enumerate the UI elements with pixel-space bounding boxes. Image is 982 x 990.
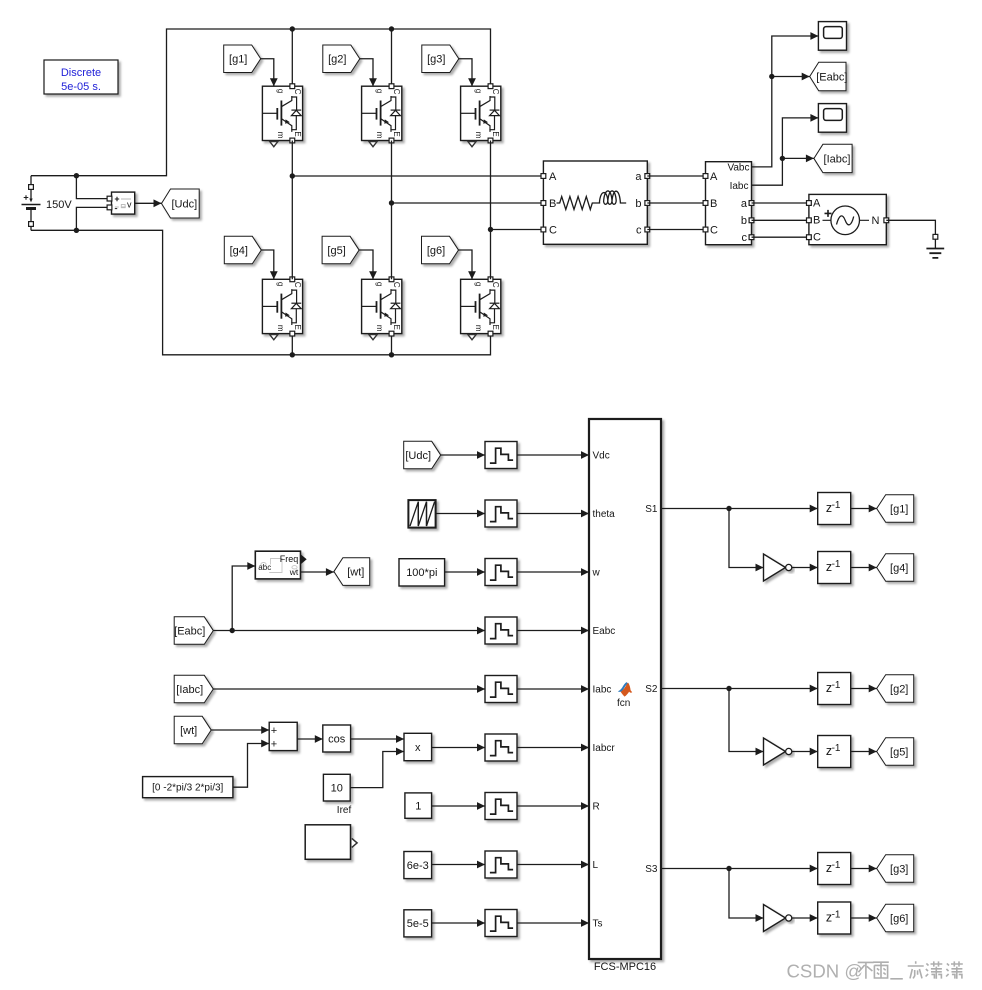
wire: DC- to voltmeter - input <box>76 207 109 230</box>
wire: g5 gate signal <box>359 250 377 279</box>
svg-text:g: g <box>276 89 285 93</box>
svg-text:5e-05 s.: 5e-05 s. <box>61 81 101 93</box>
IGBT/Diode block 3 (upper leg C) <box>461 84 501 147</box>
svg-text:C: C <box>491 282 500 288</box>
from tag [Iabc] (controller input) <box>174 675 213 703</box>
wire: rate transition 2 to FCS-MPC16 theta input <box>517 510 589 518</box>
wire: meas c to source C <box>752 236 809 238</box>
rate transition block 9 (Ts) <box>485 910 517 937</box>
svg-text:B: B <box>813 215 820 227</box>
svg-text:C: C <box>293 89 302 95</box>
scope block 1 (Vabc) <box>818 22 846 51</box>
wire: delay to Goto [g5] <box>851 748 877 756</box>
wire: g1 branch to NOT gate <box>729 509 764 572</box>
unit delay Z-1 (g3) <box>818 853 851 885</box>
svg-text:[g5]: [g5] <box>327 245 345 257</box>
wire: product to rate transition 6 <box>432 744 485 752</box>
svg-text:Iabc: Iabc <box>593 685 612 696</box>
port: RLC C <box>541 227 546 232</box>
wire: meas b to source B <box>752 219 809 221</box>
port: RLC b <box>645 201 650 206</box>
svg-text:Eabc: Eabc <box>593 626 616 637</box>
from tag [Eabc] (controller input) <box>174 617 213 645</box>
svg-text:[g6]: [g6] <box>890 913 908 925</box>
svg-text:C: C <box>293 282 302 288</box>
wire: sawtooth to rate transition 2 <box>436 510 485 518</box>
svg-text:[g1]: [g1] <box>890 503 908 515</box>
svg-text:theta: theta <box>593 509 616 520</box>
product block x <box>404 733 432 760</box>
svg-text:[Iabc]: [Iabc] <box>176 684 203 696</box>
wire: rate transition 8 to FCS-MPC16 L input <box>517 861 589 869</box>
three-phase series RLC branch block <box>543 161 647 244</box>
rate transition block 1 (Vdc) <box>485 442 517 469</box>
port: source B <box>807 218 812 223</box>
wire: DC- rail to bottom bus <box>31 230 491 354</box>
svg-text:-1: -1 <box>832 559 841 570</box>
svg-text:Vabc: Vabc <box>727 163 749 174</box>
wire: 1 to rate transition 7 <box>432 802 485 810</box>
wire: 100*pi to rate transition 3 <box>445 568 485 576</box>
DC voltage source 150V <box>22 176 73 231</box>
port: ground terminal <box>933 234 938 239</box>
wire: Udc to rate transition 1 <box>441 451 485 459</box>
from tag [g1] <box>224 45 261 73</box>
svg-text:b: b <box>741 215 747 227</box>
rate transition block 6 (Iabcr) <box>485 734 517 761</box>
goto tag [Eabc] <box>810 62 848 91</box>
port: source A <box>807 201 812 206</box>
wire: NOT gate to delay (g6) <box>792 914 818 922</box>
wire: Vabc to scope 1 <box>752 32 819 167</box>
svg-text:g: g <box>474 89 483 93</box>
wire: voltmeter output to Goto Udc <box>135 199 162 207</box>
svg-text:C: C <box>392 89 401 95</box>
wire: rate transition 7 to FCS-MPC16 R input <box>517 802 589 810</box>
svg-text:E: E <box>293 131 302 136</box>
NOT logic gate (g6 path) <box>764 905 792 932</box>
node: top bus junction col1 <box>290 26 295 31</box>
port: voltmeter - input <box>107 205 112 210</box>
svg-text:C: C <box>549 225 557 237</box>
wire: leg C midpoint <box>490 141 492 280</box>
svg-text:[Udc]: [Udc] <box>172 198 198 210</box>
goto tag [g2] <box>877 675 914 703</box>
wire: leg B midpoint <box>391 141 393 280</box>
goto tag [g1] <box>877 495 914 523</box>
svg-text:v: v <box>127 199 132 209</box>
wire: phase A to RLC branch <box>292 175 543 177</box>
node: g2 branch <box>726 686 731 691</box>
constant block 100*pi <box>399 559 445 586</box>
svg-text:[g3]: [g3] <box>890 863 908 875</box>
svg-text:-1: -1 <box>832 910 841 921</box>
IGBT/Diode block 2 (upper leg B) <box>362 84 402 147</box>
cos trigonometric block <box>323 725 351 752</box>
wire: g6 gate signal <box>459 250 476 279</box>
sum block (+ +) <box>269 722 297 750</box>
svg-text:[g3]: [g3] <box>427 54 445 66</box>
svg-text:c: c <box>742 232 748 244</box>
svg-text:-1: -1 <box>832 680 841 691</box>
wire: g3 gate signal <box>459 59 476 86</box>
svg-text:[Eabc]: [Eabc] <box>816 71 847 83</box>
svg-text:[g2]: [g2] <box>890 683 908 695</box>
svg-text:1: 1 <box>415 800 421 812</box>
wire: phase C to RLC branch <box>491 229 544 231</box>
svg-text:Iabc: Iabc <box>730 181 749 192</box>
wire: Eabc branch to abc input <box>232 562 255 630</box>
wire: Vabc branch to Goto Eabc <box>772 73 810 81</box>
port: measurement b out <box>749 218 754 223</box>
wire: RLC b to measurement B <box>647 202 705 204</box>
svg-text:[g6]: [g6] <box>427 245 445 257</box>
svg-text:m: m <box>375 325 384 332</box>
svg-text:Ts: Ts <box>593 919 603 930</box>
wire: top bus drop to IGBT1 collector <box>291 29 293 86</box>
svg-text:150V: 150V <box>46 199 72 211</box>
NOT logic gate (g5 path) <box>764 738 792 765</box>
svg-text:S2: S2 <box>645 684 658 695</box>
svg-text:Vdc: Vdc <box>593 451 610 462</box>
svg-text:C: C <box>813 232 821 244</box>
rate transition block 2 (theta) <box>485 500 517 527</box>
svg-text:C: C <box>710 225 718 237</box>
wire: phase B to RLC branch <box>392 202 544 204</box>
unit delay Z-1 (g2) <box>818 673 851 705</box>
wire: RLC c to measurement C <box>647 229 705 231</box>
svg-text:g: g <box>276 282 285 286</box>
svg-text:g: g <box>375 89 384 93</box>
node: g1 branch <box>726 506 731 511</box>
wire: Iabc to scope 2 <box>752 114 819 185</box>
svg-text:C: C <box>392 282 401 288</box>
from tag [g2] <box>323 45 360 73</box>
wire: delay to Goto [g6] <box>851 914 877 922</box>
svg-text:L: L <box>593 860 599 871</box>
wire: g3 signal to delay <box>661 865 818 873</box>
unit delay Z-1 (g5) <box>818 736 851 768</box>
port: measurement B in <box>703 201 708 206</box>
svg-text:10: 10 <box>331 783 343 795</box>
svg-text:B: B <box>710 198 717 210</box>
MATLAB fcn logo <box>617 682 632 709</box>
port: voltmeter + input <box>107 196 112 201</box>
scope block 2 (Iabc) <box>818 104 846 133</box>
wire: NOT gate to delay (g4) <box>792 564 818 572</box>
node: Eabc branch to freq block <box>230 628 235 633</box>
wire: NOT gate to delay (g5) <box>792 748 818 756</box>
goto tag [Udc] <box>162 189 200 218</box>
wire: delay to Goto [g2] <box>851 685 877 693</box>
svg-text:x: x <box>415 742 421 754</box>
unconnected subsystem block <box>305 825 357 860</box>
rate transition block 3 (w) <box>485 559 517 586</box>
node: phase C tap <box>488 227 493 232</box>
wire: g3 branch to NOT gate <box>729 869 764 922</box>
wire: delay to Goto [g4] <box>851 564 877 572</box>
wire: Iabc branch to Goto Iabc <box>782 155 814 163</box>
svg-text:A: A <box>813 197 821 209</box>
svg-text:Iabcr: Iabcr <box>593 743 616 754</box>
wire: rate transition 4 to FCS-MPC16 Eabc input <box>517 627 589 635</box>
svg-text:Discrete: Discrete <box>61 67 101 79</box>
constant block 1 <box>405 793 432 818</box>
wire: delay to Goto [g1] <box>851 505 877 513</box>
wire: DC+ rail to top bus <box>31 29 491 176</box>
goto tag [g3] <box>877 855 914 883</box>
svg-text:a: a <box>741 198 748 210</box>
wire: bottom bus rise to IGBT4 emitter <box>291 334 293 355</box>
port: RLC a <box>645 174 650 179</box>
svg-text:[g1]: [g1] <box>229 54 247 66</box>
unit delay Z-1 (g1) <box>818 493 851 525</box>
goto tag [g5] <box>877 738 914 766</box>
IGBT/Diode block 4 (lower leg A) <box>262 277 302 340</box>
svg-text:E: E <box>392 325 401 330</box>
wire: leg A midpoint <box>291 141 293 280</box>
svg-text:g: g <box>375 282 384 286</box>
wire: meas a to source A <box>752 202 809 204</box>
from tag [g4] <box>224 236 261 263</box>
svg-text:Iref: Iref <box>337 805 352 816</box>
svg-text:b: b <box>635 198 641 210</box>
sawtooth repeating sequence block (theta) <box>408 500 435 527</box>
three-phase V-I measurement block <box>706 162 752 245</box>
node: Vabc branch <box>769 74 774 79</box>
node: g3 branch <box>726 866 731 871</box>
port: measurement A in <box>703 174 708 179</box>
annotation: Discrete 5e-05 s. <box>44 60 118 94</box>
wire: rate transition 5 to FCS-MPC16 Iabc input <box>517 685 589 693</box>
wire: Iabc to rate transition 5 <box>213 685 485 693</box>
NOT logic gate (g4 path) <box>764 554 792 581</box>
wire: rate transition 1 to FCS-MPC16 Vdc input <box>517 451 589 459</box>
goto tag [g6] <box>877 904 914 932</box>
svg-text:[g4]: [g4] <box>230 245 248 257</box>
rate transition block 4 (Eabc) <box>485 617 517 644</box>
wire: g1 gate signal <box>261 59 278 86</box>
constant block 5e-5 <box>404 910 432 937</box>
wire: delay to Goto [g3] <box>851 865 877 873</box>
constant block [0 -2*pi/3 2*pi/3] <box>143 777 233 798</box>
rate transition block 5 (Iabc) <box>485 676 517 703</box>
wire: N to ground <box>886 220 935 234</box>
svg-text:Freq: Freq <box>280 554 299 564</box>
svg-text:[wt]: [wt] <box>180 725 197 737</box>
svg-text:[0 -2*pi/3 2*pi/3]: [0 -2*pi/3 2*pi/3] <box>152 783 223 794</box>
wire: phase vector to sum input 2 <box>233 740 269 788</box>
rate transition block 8 (L) <box>485 851 517 878</box>
svg-text:A: A <box>549 171 557 183</box>
node: bottom bus junction col2 <box>389 352 394 357</box>
wire: wt to sum input 1 <box>211 726 269 734</box>
from tag [Udc] (controller input) <box>404 441 441 469</box>
node: Iabc branch <box>780 156 785 161</box>
svg-text:N: N <box>872 215 880 227</box>
node: phase B tap <box>389 200 394 205</box>
frequency measurement block (abc/Freq/wt) <box>255 551 306 579</box>
wire: rate transition 3 to FCS-MPC16 w input <box>517 568 589 576</box>
svg-text:A: A <box>710 171 718 183</box>
svg-text:[g5]: [g5] <box>890 746 908 758</box>
wire: g4 gate signal <box>261 250 277 279</box>
wire: bottom bus rise to IGBT5 emitter <box>391 334 393 355</box>
node: DC- tap to voltmeter <box>74 228 79 233</box>
svg-text:c: c <box>636 225 642 237</box>
svg-text:100*pi: 100*pi <box>406 567 437 579</box>
port: RLC A <box>541 174 546 179</box>
svg-text:R: R <box>593 802 600 813</box>
goto tag [wt] <box>334 558 370 586</box>
svg-text:cos: cos <box>328 733 346 745</box>
wire: sum to cos <box>297 735 323 743</box>
svg-text:m: m <box>276 132 285 139</box>
wire: cos to product input 1 <box>351 735 404 743</box>
IGBT/Diode block 6 (lower leg C) <box>461 277 501 340</box>
wire: g2 signal to delay <box>661 685 818 693</box>
wire: rate transition 6 to FCS-MPC16 Iabcr input <box>517 744 589 752</box>
svg-text:[Iabc]: [Iabc] <box>824 153 851 165</box>
goto tag [g4] <box>877 554 914 582</box>
port: measurement c out <box>749 235 754 240</box>
port: DC source - terminal <box>29 222 34 227</box>
wire: RLC a to measurement A <box>647 175 705 177</box>
voltage measurement block Vdc <box>112 192 135 214</box>
svg-text:S1: S1 <box>645 504 658 515</box>
svg-text:CSDN @: CSDN @ <box>787 960 864 981</box>
node: DC+ tap to voltmeter <box>74 173 79 178</box>
from tag [g5] <box>322 236 359 263</box>
svg-text:[wt]: [wt] <box>347 566 364 578</box>
wire: rate transition 9 to FCS-MPC16 Ts input <box>517 919 589 927</box>
svg-text:+: + <box>271 739 277 751</box>
wire: Eabc to rate transition 4 <box>213 627 485 635</box>
svg-text:fcn: fcn <box>617 698 630 709</box>
port: source C <box>807 235 812 240</box>
constant block 10 (Iref) <box>323 774 351 816</box>
svg-text:B: B <box>549 198 556 210</box>
port: measurement a out <box>749 201 754 206</box>
node: phase A tap <box>290 173 295 178</box>
svg-text:E: E <box>392 131 401 136</box>
wire: g2 branch to NOT gate <box>729 689 764 756</box>
svg-text:a: a <box>635 171 642 183</box>
constant block 6e-3 <box>404 852 432 879</box>
svg-text:m: m <box>474 325 483 332</box>
svg-text:wt: wt <box>289 567 299 577</box>
three-phase source block <box>809 194 886 244</box>
svg-text:[g4]: [g4] <box>890 562 908 574</box>
unit delay Z-1 (g4) <box>818 552 851 584</box>
from tag [wt] (controller input) <box>174 716 211 744</box>
svg-text:-1: -1 <box>832 500 841 511</box>
wire: g1 signal to delay <box>661 505 818 513</box>
port: DC source + terminal <box>29 185 34 190</box>
wire: DC+ to voltmeter + input <box>76 176 109 199</box>
IGBT/Diode block 1 (upper leg A) <box>262 84 302 147</box>
node: top bus junction col2 <box>389 26 394 31</box>
svg-text:m: m <box>474 132 483 139</box>
from tag [g6] <box>422 236 459 263</box>
svg-text:+: + <box>271 725 277 737</box>
ground symbol <box>926 239 944 258</box>
node: bottom bus junction col1 <box>290 352 295 357</box>
wire: 6e-3 to rate transition 8 <box>432 861 485 869</box>
svg-text:[g2]: [g2] <box>328 54 346 66</box>
wire: 5e-5 to rate transition 9 <box>432 919 485 927</box>
port: source N <box>884 218 889 223</box>
port: measurement C in <box>703 227 708 232</box>
wire: top bus drop to IGBT2 collector <box>391 29 393 86</box>
svg-text:6e-3: 6e-3 <box>407 860 429 872</box>
svg-text:m: m <box>276 325 285 332</box>
svg-text:C: C <box>491 89 500 95</box>
from tag [g3] <box>422 45 459 73</box>
svg-text:g: g <box>474 282 483 286</box>
wire: wt output to Goto wt <box>301 568 334 576</box>
svg-text:[Udc]: [Udc] <box>405 450 431 462</box>
wire: 10 to product input 2 <box>350 748 404 788</box>
watermark Chinese characters <box>858 961 964 980</box>
port: RLC B <box>541 201 546 206</box>
goto tag [Iabc] <box>814 144 852 172</box>
svg-text:w: w <box>592 568 601 579</box>
svg-text:-1: -1 <box>832 743 841 754</box>
svg-text:m: m <box>375 132 384 139</box>
unit delay Z-1 (g6) <box>818 902 851 934</box>
port: RLC c <box>645 227 650 232</box>
svg-text:FCS-MPC16: FCS-MPC16 <box>594 961 656 973</box>
wire: g2 gate signal <box>360 59 377 86</box>
MATLAB function block FCS-MPC16 <box>589 419 661 973</box>
watermark CSDN <box>787 960 865 982</box>
svg-text:E: E <box>293 325 302 330</box>
svg-text:5e-5: 5e-5 <box>407 918 429 930</box>
svg-text:[Eabc]: [Eabc] <box>174 625 205 637</box>
svg-text:E: E <box>491 131 500 136</box>
svg-text:-1: -1 <box>832 860 841 871</box>
svg-text:abc: abc <box>258 563 271 572</box>
svg-text:S3: S3 <box>645 864 658 875</box>
rate transition block 7 (R) <box>485 793 517 820</box>
svg-text:E: E <box>491 325 500 330</box>
IGBT/Diode block 5 (lower leg B) <box>362 277 402 340</box>
